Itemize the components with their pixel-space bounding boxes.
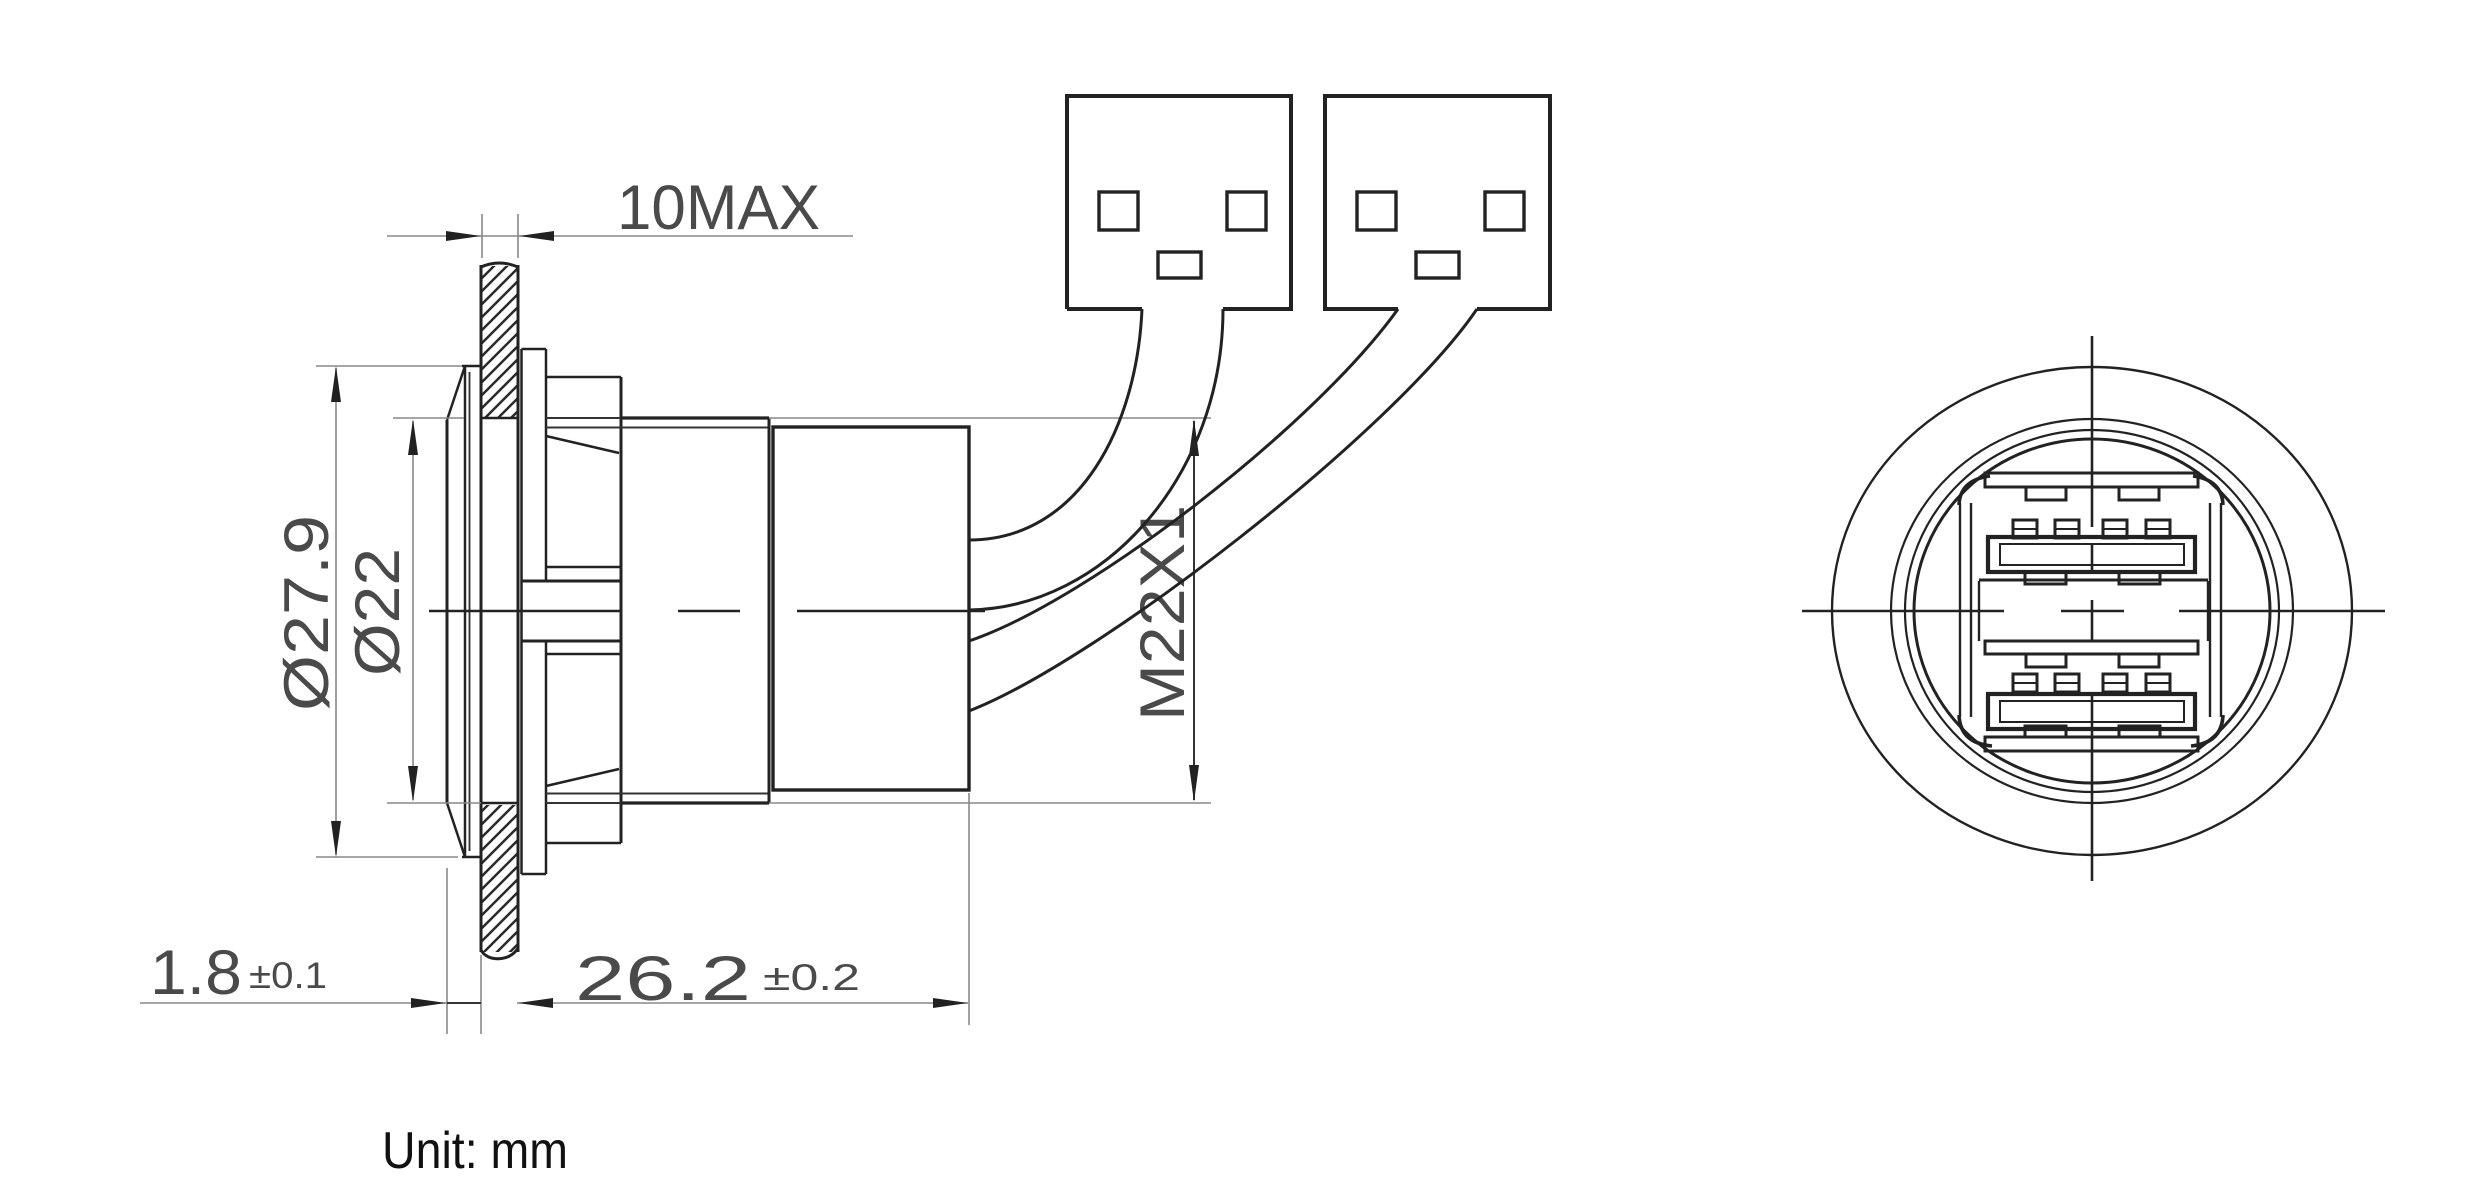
hex nut right face (620, 377, 623, 843)
washer behind panel (522, 349, 547, 874)
svg-text:10MAX: 10MAX (617, 173, 820, 243)
svg-text:26.2: 26.2 (575, 944, 751, 1014)
panel plate hatched top part (483, 266, 517, 417)
hex nut bottom edge (546, 842, 621, 845)
port1 bottom shield edge (1979, 579, 2208, 582)
bezel flange top taper (447, 366, 465, 420)
USB plug 1 center slot (1158, 252, 1201, 278)
svg-text:1.8: 1.8 (150, 938, 242, 1008)
USB plug 2 pin left (1357, 192, 1396, 230)
module left wall (1959, 503, 1961, 717)
USB plug 2 outline (1325, 96, 1550, 309)
dimension 10MAX (387, 173, 853, 258)
panel plate hatched bottom part (483, 805, 517, 952)
module shield top bar (1985, 473, 2198, 487)
dimension 1.8 +-0.1 (140, 868, 481, 1034)
panel hole top edge (481, 417, 519, 420)
port1 spring tabs under top bar (2026, 487, 2066, 500)
cable 1 right edge (969, 309, 1223, 610)
panel plate outline (481, 263, 518, 959)
bezel circle (1891, 419, 2293, 803)
inner circle A (1905, 430, 2279, 792)
inner circle B (1914, 439, 2270, 783)
inter-port side verticals (1978, 581, 1980, 641)
centerline left view (429, 610, 985, 613)
dimension dia 22 (343, 418, 481, 803)
USB plug 1 pin left (1099, 192, 1138, 230)
hex nut top edge (546, 376, 621, 379)
panel hole bottom edge (481, 802, 519, 805)
USB slot web upper band (547, 566, 621, 569)
bezel flange front face (446, 420, 449, 803)
outer ring circle (1832, 367, 2352, 855)
bezel flange back face (464, 366, 467, 857)
dimension dia 27.9 (272, 366, 462, 857)
USB plug 1 pin right (1227, 192, 1266, 230)
port1 contact pins (2013, 520, 2170, 538)
hex nut bottom chamfer (546, 769, 619, 786)
hex nut top chamfer (546, 436, 619, 453)
gasket line (469, 372, 471, 851)
USB plug 2 center slot (1416, 252, 1459, 278)
port1 lower tabs (2025, 572, 2066, 584)
port2 top shield edge (1985, 641, 2198, 654)
thread root bottom line (546, 793, 769, 795)
port2 contact pins (2013, 674, 2170, 692)
USB slot web lower band (521, 640, 621, 643)
cable 1 left edge (969, 309, 1142, 540)
thread root top line (546, 427, 769, 429)
svg-text:Ø22: Ø22 (343, 548, 413, 676)
cable 2 right edge (969, 309, 1477, 711)
port2 spring tabs (2026, 654, 2066, 667)
port2 tongue (1988, 694, 2195, 729)
svg-text:Unit: mm: Unit: mm (382, 1122, 568, 1179)
port2 lower tabs (2025, 726, 2066, 737)
USB plug 2 pin right (1485, 192, 1524, 230)
front view vertical centerline (2091, 336, 2094, 881)
barrel end step (768, 418, 771, 803)
bezel flange bottom taper (447, 803, 465, 857)
module corner arcs (1959, 476, 1990, 505)
dimension 26.2 +-0.2 (517, 793, 969, 1025)
svg-text:±0.1: ±0.1 (249, 955, 327, 996)
rear housing (773, 427, 969, 790)
module right wall (2209, 503, 2211, 717)
cable 2 left edge (969, 309, 1398, 641)
bezel flange top edge (462, 365, 481, 368)
bezel flange bottom edge (462, 856, 481, 859)
port1 tongue (1988, 537, 2195, 572)
dimension M22X1 (769, 418, 1211, 803)
USB plug 1 outline (1067, 96, 1291, 309)
svg-text:±0.2: ±0.2 (763, 957, 860, 998)
thread crest top line (546, 417, 621, 419)
svg-text:Ø27.9: Ø27.9 (272, 515, 342, 711)
thread crest bottom line (546, 802, 621, 804)
module shield bottom bar (1985, 737, 2198, 751)
front view horizontal centerline (1802, 610, 2385, 613)
